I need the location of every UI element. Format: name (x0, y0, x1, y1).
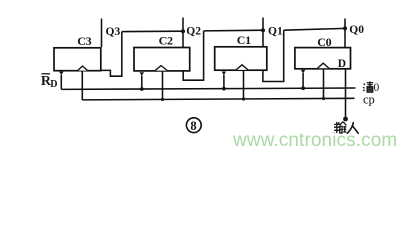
svg-text:C3: C3 (77, 34, 91, 48)
svg-text:cp: cp (363, 93, 375, 107)
svg-text:www.cntronics.com: www.cntronics.com (232, 130, 397, 151)
svg-text:Q1: Q1 (268, 25, 283, 37)
svg-text:Q0: Q0 (349, 24, 364, 36)
svg-text:D: D (50, 79, 57, 90)
svg-text:Q3: Q3 (106, 26, 121, 38)
svg-text:C2: C2 (159, 34, 173, 48)
svg-text:C0: C0 (317, 35, 331, 49)
svg-text:Q2: Q2 (186, 26, 201, 38)
svg-text:D: D (338, 58, 346, 70)
svg-text:8: 8 (190, 119, 196, 133)
svg-text:C1: C1 (237, 33, 251, 47)
